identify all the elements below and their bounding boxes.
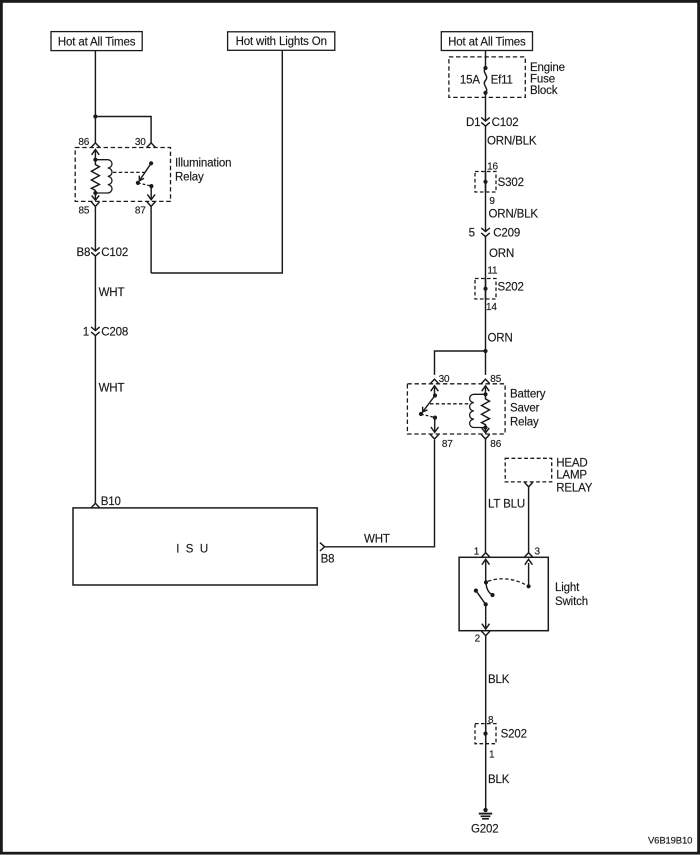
wire: S302 to connector C209 (485, 172, 487, 232)
wire: pin 85 to connector C102 (94, 206, 96, 251)
wire: right feed into fuse block (485, 51, 487, 69)
pin 85 fork (battery relay) (481, 379, 489, 383)
svg-text:BLK: BLK (488, 774, 510, 786)
svg-text:Relay: Relay (175, 171, 204, 183)
splice S202 box (ground) (475, 724, 496, 744)
light switch dashed arc (488, 579, 529, 587)
light switch contact node (490, 593, 494, 597)
pin 86 fork (91, 143, 99, 147)
relay coil top node (93, 158, 97, 162)
light switch contact curve (486, 582, 493, 595)
relay contact arrow (pin 87) (150, 186, 152, 200)
svg-text:V6B19B10: V6B19B10 (648, 835, 692, 846)
header box: Hot at All Times (left) (51, 32, 142, 51)
relay contact node (pin 87) (149, 184, 153, 188)
svg-text:8: 8 (488, 715, 494, 726)
svg-text:Battery: Battery (510, 388, 546, 400)
svg-text:C102: C102 (101, 247, 128, 259)
svg-text:Ef11: Ef11 (491, 75, 513, 87)
svg-text:B8: B8 (77, 247, 91, 259)
svg-text:LAMP: LAMP (556, 469, 587, 481)
wire: S202 to battery saver relay pin 85 (485, 279, 487, 375)
svg-text:ORN: ORN (488, 333, 513, 345)
pin 3 fork (light switch) (524, 553, 532, 557)
light switch pin 1 arrow (482, 559, 490, 564)
battery relay coil winding (470, 394, 486, 427)
svg-text:D1: D1 (466, 117, 480, 129)
splice S202 node (483, 287, 487, 291)
svg-text:S202: S202 (501, 729, 527, 741)
svg-text:ORN/BLK: ORN/BLK (487, 136, 537, 148)
battery relay switch dashed link (421, 414, 435, 418)
light switch pin 2 arrow (485, 604, 487, 629)
splice S202 box (475, 279, 496, 300)
wire: riser to pin 87 fork (150, 206, 152, 273)
svg-text:9: 9 (489, 196, 495, 207)
svg-text:S202: S202 (498, 282, 524, 294)
wire: C102 to C208 (94, 256, 96, 331)
svg-text:WHT: WHT (364, 534, 390, 546)
fuse top node (483, 66, 487, 70)
svg-text:87: 87 (135, 205, 146, 216)
wire: Hot with Lights On to relay pin 87 (151, 50, 282, 273)
svg-text:B10: B10 (101, 496, 121, 508)
svg-text:Hot at All Times: Hot at All Times (448, 36, 526, 48)
relay switch dashed link (138, 183, 152, 186)
svg-text:WHT: WHT (99, 287, 125, 299)
relay coil bottom node (93, 191, 97, 195)
wire: light switch pin 2 to splice S202 (485, 636, 487, 744)
light switch pin 3 shaft (528, 563, 530, 586)
wire: C102 to splice S302 (485, 126, 487, 192)
svg-text:G202: G202 (471, 823, 499, 835)
light switch common node (484, 602, 488, 606)
pin B8 fork (ISU output) (320, 543, 325, 551)
svg-text:3: 3 (535, 546, 541, 557)
splice S302 node (483, 180, 487, 184)
svg-text:85: 85 (490, 374, 501, 385)
battery relay coil top node (483, 392, 487, 396)
ground G202 symbol (483, 808, 487, 812)
pin 30 fork (battery relay) (430, 379, 438, 383)
relay mech link dashed (113, 171, 145, 173)
battery relay contact arrow (pin 87) (434, 418, 436, 433)
battery relay contact arrow (pin 30) (431, 386, 439, 391)
relay coil resistor zigzag (91, 160, 99, 193)
svg-text:WHT: WHT (99, 383, 125, 395)
svg-text:1: 1 (83, 327, 89, 339)
svg-text:30: 30 (439, 374, 450, 385)
svg-text:86: 86 (78, 137, 89, 148)
wire: branch to relay pin 30 (95, 117, 151, 143)
svg-text:86: 86 (490, 439, 501, 450)
relay coil arrow (pin 85) (94, 193, 96, 200)
battery relay mech link dashed (430, 403, 469, 405)
battery relay coil arrow (pin 85) (482, 386, 490, 391)
svg-text:Relay: Relay (510, 416, 539, 428)
wire: ISU B8 to battery saver relay pin 87 (325, 440, 435, 547)
svg-text:Hot with Lights On: Hot with Lights On (236, 36, 327, 48)
pin 1 fork (light switch) (482, 553, 490, 557)
fuse Ef11 element (484, 68, 486, 93)
pin 87 fork (battery relay) (430, 434, 438, 439)
svg-text:1: 1 (489, 749, 495, 760)
svg-text:C209: C209 (493, 228, 520, 240)
connector B8 C102 (91, 247, 100, 251)
svg-text:11: 11 (487, 265, 498, 276)
pin 2 fork (light switch) (482, 631, 490, 636)
splice S302 box (475, 172, 496, 193)
relay contact node (pin 30) (149, 161, 153, 165)
connector 1 C208 (91, 327, 100, 331)
light switch wiper node (474, 589, 478, 593)
wire: C209 to splice S202 (485, 237, 487, 300)
svg-text:14: 14 (486, 302, 497, 313)
svg-text:16: 16 (487, 161, 498, 172)
svg-text:ORN/BLK: ORN/BLK (489, 209, 539, 221)
svg-text:C102: C102 (492, 117, 519, 129)
svg-text:Engine: Engine (530, 62, 565, 74)
wire: fuse to connector C102 (485, 93, 487, 121)
svg-text:Saver: Saver (510, 402, 540, 414)
fuse bottom node (483, 91, 487, 95)
svg-text:RELAY: RELAY (556, 483, 593, 495)
battery relay contact node (433, 393, 437, 397)
light switch wiper arm (476, 591, 486, 605)
pin 87 fork (147, 202, 155, 207)
wire: S202 to ground G202 (485, 724, 487, 810)
svg-text:Illumination: Illumination (175, 157, 231, 169)
svg-text:30: 30 (135, 137, 146, 148)
header box: Hot at All Times (right) (441, 32, 532, 51)
head lamp relay box (505, 458, 552, 482)
svg-text:B8: B8 (321, 553, 335, 565)
wire: left feed down to relay pin 86 (94, 51, 96, 143)
battery relay coil bottom node (483, 425, 487, 429)
battery relay coil resistor zigzag (482, 394, 490, 427)
svg-text:I S U: I S U (176, 544, 210, 556)
svg-text:LT BLU: LT BLU (488, 499, 525, 511)
header box: Hot with Lights On (228, 32, 335, 51)
svg-text:BLK: BLK (488, 674, 510, 686)
battery relay switch arm node (419, 412, 423, 416)
relay coil arrow (pin 86) (92, 150, 100, 155)
svg-text:87: 87 (442, 439, 453, 450)
engine fuse block box (449, 57, 525, 98)
battery relay contact node (pin 87) (433, 416, 437, 420)
svg-text:Switch: Switch (555, 596, 588, 608)
svg-text:ORN: ORN (489, 248, 514, 260)
svg-text:S302: S302 (498, 177, 524, 189)
svg-text:2: 2 (475, 634, 481, 645)
pin 30 fork (147, 143, 155, 147)
head lamp relay fork (524, 482, 532, 487)
svg-text:15A: 15A (460, 75, 480, 87)
wire: C208 to ISU pin B10 (94, 336, 96, 504)
svg-text:5: 5 (469, 228, 475, 240)
svg-text:C208: C208 (101, 327, 128, 339)
wire: head lamp relay to light switch pin 3 (528, 487, 530, 553)
node: junction to pin 30 branch (483, 349, 487, 353)
connector 5 C209 (481, 228, 490, 232)
relay switch arm node (136, 181, 140, 185)
wire: branch to relay pin 30 (435, 351, 486, 375)
svg-text:85: 85 (78, 205, 89, 216)
pin 85 fork (91, 202, 99, 207)
ISU box (73, 508, 317, 585)
svg-text:Hot at All Times: Hot at All Times (58, 36, 136, 48)
battery saver relay box (407, 384, 505, 434)
battery relay coil arrow (pin 86) (485, 428, 487, 433)
connector D1 C102 (481, 117, 490, 121)
splice S202 node (ground) (483, 732, 487, 736)
wire: pin 86 to light switch pin 1 (485, 439, 487, 553)
svg-text:Light: Light (555, 582, 580, 594)
pin 86 fork (battery relay) (481, 434, 489, 439)
light switch box (459, 557, 548, 630)
light switch pin 3 node (527, 584, 531, 588)
light switch pin 1 node (484, 580, 488, 584)
illumination relay box (75, 148, 170, 202)
svg-text:Fuse: Fuse (530, 74, 555, 86)
svg-text:1: 1 (474, 546, 480, 557)
pin B10 fork (91, 503, 99, 507)
light switch pin 3 arrow (525, 559, 533, 564)
relay switch arm (140, 163, 152, 180)
relay coil winding (95, 160, 112, 193)
node: junction on left feed (93, 114, 97, 118)
battery relay switch arm (423, 396, 435, 412)
svg-text:Block: Block (530, 85, 558, 97)
svg-text:HEAD: HEAD (556, 457, 587, 469)
